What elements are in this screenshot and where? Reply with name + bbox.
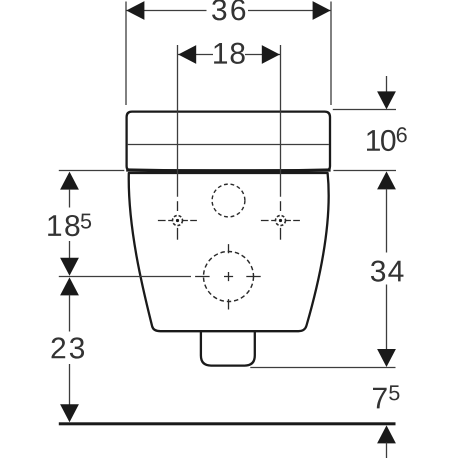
node centre line left fixing [177, 45, 179, 197]
wire right dim column top tail [386, 76, 388, 93]
arrowhead 23 down [60, 404, 79, 422]
wire right leader line at lid bottom [333, 170, 396, 172]
wire left fixing crosshair bottom arm [177, 228, 179, 240]
wire right fixing crosshair top arm [280, 201, 282, 211]
wire dimension line 36 left segment [126, 10, 207, 12]
wire right fixing crosshair left arm [261, 220, 276, 222]
wire dimension line 18 left segment [178, 54, 214, 56]
wire left fixing crosshair left arm [158, 220, 173, 222]
node right fixing point centre dot [279, 219, 282, 222]
wire right dim column bottom tail [386, 443, 388, 458]
wire drain crosshair horizontal [195, 276, 261, 278]
wire left leader line at lid bottom [59, 170, 125, 172]
arrowhead 34 down [377, 349, 396, 367]
node left fixing point centre dot [176, 219, 179, 222]
value label 18 [214, 43, 245, 64]
wire dim 34 lower segment [386, 285, 388, 351]
toilet lid outline [127, 112, 330, 171]
arrowhead 10.6 down [377, 91, 396, 109]
wire extension line right of dim 36 [330, 2, 332, 106]
ground floor line [59, 422, 396, 425]
arrowhead 36 left [126, 1, 144, 20]
wire dimension line 18 right segment [245, 54, 281, 56]
value label 23 [52, 337, 85, 358]
wire right leader line at outlet bottom [250, 367, 395, 369]
node centre line right fixing [280, 45, 282, 197]
wire dim 18.5 upper segment [69, 189, 71, 208]
node water supply dashed circle [212, 184, 245, 217]
value label 34 [371, 260, 404, 281]
value label 10 superscript 6 [367, 127, 407, 151]
wire drain crosshair vertical [228, 244, 230, 309]
wire dim 23 upper segment [69, 295, 71, 332]
node right fixing point dashed circle [276, 216, 286, 226]
wire dim 34 upper segment [386, 189, 388, 253]
arrowhead 18 right [262, 45, 280, 64]
wire right leader line at lid top [333, 109, 396, 111]
arrowhead 23 up [60, 277, 79, 295]
wire left fixing crosshair top arm [177, 201, 179, 211]
value label 7 superscript 5 [373, 385, 399, 408]
arrowhead 36 right [313, 1, 331, 20]
arrowhead 18 left [178, 45, 196, 64]
wire left fixing crosshair right arm [183, 220, 197, 222]
wire dim 18.5 lower segment [69, 241, 71, 259]
wire right fixing crosshair bottom arm [280, 228, 282, 240]
value label 36 [212, 0, 245, 20]
toilet bottom outlet spigot [201, 332, 255, 366]
wire extension line left of dim 36 [125, 2, 127, 106]
arrowhead 7.5 up below floor [377, 425, 396, 443]
value label 18 superscript 5 [48, 214, 91, 237]
arrowhead 18.5 down [60, 258, 79, 276]
arrowhead 34 up [377, 171, 396, 189]
wire dimension line 36 right segment [248, 10, 331, 12]
wire left leader line at drain centre [59, 276, 191, 278]
toilet ceramic body outline [129, 173, 329, 331]
wire right fixing crosshair right arm [286, 220, 300, 222]
node left fixing point dashed circle [173, 216, 183, 226]
arrowhead 18.5 up [60, 172, 79, 190]
node drain dashed circle [204, 252, 254, 302]
toilet lid seam line [128, 144, 329, 146]
wire dim 23 lower segment [69, 364, 71, 406]
toilet lid bottom band [126, 168, 330, 172]
